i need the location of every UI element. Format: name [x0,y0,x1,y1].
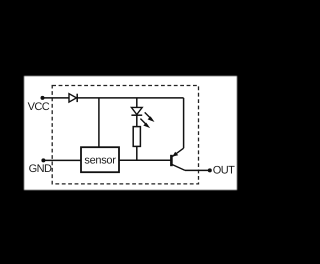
svg-text:GND: GND [29,163,52,175]
wire rail to sensor [98,98,100,147]
dashed module enclosure [52,86,198,184]
wire resistor to base wire [136,146,138,160]
node OUT terminal dot [208,168,212,172]
diode D1 [69,94,77,102]
node VCC terminal dot [41,96,45,100]
svg-text:OUT: OUT [213,165,235,177]
wire LED to resistor [136,115,138,127]
wire GND to sensor [43,159,81,161]
LED D2 [131,107,153,127]
svg-text:sensor: sensor [84,154,116,166]
wire VCC to diode [43,97,70,99]
wire sensor to transistor base [119,159,171,161]
wire collector to OUT [185,169,210,171]
svg-text:VCC: VCC [28,101,50,113]
wire top rail [77,97,184,99]
transistor Q1 PNP [171,98,185,170]
resistor R1 [133,127,140,147]
node GND terminal dot [41,158,45,162]
wire rail to LED [136,98,138,108]
sensor box U1 [81,147,119,172]
